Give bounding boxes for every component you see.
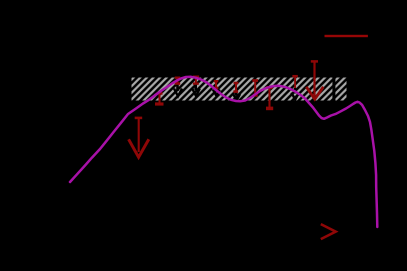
red I-bar mark C — [193, 77, 199, 84]
magenta curve — [70, 77, 377, 227]
red I-bar mark F — [252, 81, 258, 96]
red I-bar mark G — [266, 88, 273, 109]
red chevron arrowhead (bottom right) — [321, 224, 336, 239]
red I-bar mark D — [214, 81, 219, 88]
big red arrow I — [306, 61, 323, 99]
black arrow under mark C — [192, 84, 200, 96]
red I-bar mark H — [292, 76, 297, 88]
black arrow under mark H — [291, 88, 299, 100]
red I-bar mark A — [155, 93, 164, 104]
black vertical cut in band — [332, 78, 335, 101]
red legend line — [325, 35, 368, 37]
black arrow under mark B — [174, 83, 182, 96]
black arrow under mark D — [213, 88, 220, 96]
hatched band — [132, 78, 347, 101]
black arrow under mark E — [233, 92, 240, 100]
red down arrow (lower left) — [129, 118, 149, 157]
red I-bar mark B — [175, 78, 181, 84]
red I-bar mark E — [233, 83, 238, 92]
